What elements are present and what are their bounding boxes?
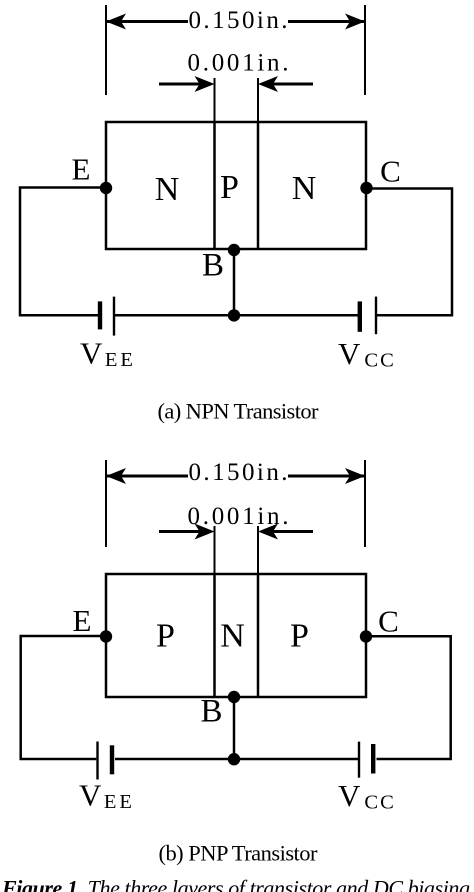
svg-text:B: B bbox=[200, 694, 222, 730]
battery V_EE (NPN) thick plate bbox=[98, 301, 102, 329]
inner dimension arrow left (points right at base layer) bbox=[159, 76, 215, 92]
label C (PNP) bbox=[378, 604, 399, 639]
dimension line 0.150in left segment with arrowhead bbox=[106, 14, 188, 30]
node E dot bbox=[100, 182, 112, 194]
extension line right of 0.150in dimension (PNP) bbox=[364, 460, 366, 547]
region label P (collector) bbox=[290, 618, 309, 655]
region label N (base) bbox=[220, 618, 245, 655]
caption (a) NPN Transistor bbox=[158, 399, 320, 424]
label E (PNP) bbox=[73, 603, 92, 638]
svg-text:P: P bbox=[290, 618, 309, 655]
svg-text:(b) PNP Transistor: (b) PNP Transistor bbox=[159, 841, 319, 866]
battery V_CC (PNP) thin plate bbox=[358, 742, 360, 778]
svg-text:C: C bbox=[378, 604, 399, 639]
label E bbox=[72, 152, 91, 187]
label V_EE bbox=[80, 336, 136, 372]
dimension line 0.150in left segment with arrowhead (PNP) bbox=[106, 468, 188, 484]
svg-text:Figure 1. The three layers of: Figure 1. The three layers of transistor… bbox=[1, 876, 470, 892]
region label P (base) bbox=[220, 169, 239, 206]
svg-text:0.001in.: 0.001in. bbox=[188, 50, 289, 77]
label C bbox=[380, 154, 401, 189]
base wire (PNP) bbox=[233, 697, 236, 759]
transistor body rectangle (PNP) bbox=[106, 574, 366, 697]
region label P (emitter) bbox=[156, 618, 175, 655]
label V_CC (PNP) bbox=[338, 778, 396, 814]
base-width extension line right bbox=[257, 78, 259, 122]
dimension line 0.150in right segment with arrowhead (PNP) bbox=[288, 468, 365, 484]
base-width extension line left bbox=[214, 78, 216, 122]
svg-text:P: P bbox=[220, 169, 239, 206]
bottom wire V_EE to base junction bbox=[115, 314, 234, 317]
svg-text:N: N bbox=[220, 618, 245, 655]
bottom wire base junction to V_CC bbox=[234, 314, 358, 317]
dimension line 0.150in right segment with arrowhead bbox=[288, 14, 365, 30]
node C dot (PNP) bbox=[360, 630, 372, 642]
dimension label 0.150in. bbox=[189, 7, 288, 34]
inner dimension arrow right (PNP) bbox=[258, 524, 313, 540]
svg-text:VCC: VCC bbox=[338, 336, 396, 372]
svg-text:VCC: VCC bbox=[338, 778, 396, 814]
svg-text:B: B bbox=[202, 248, 224, 284]
bottom node dot (PNP) bbox=[228, 753, 240, 765]
svg-text:E: E bbox=[72, 152, 91, 187]
region label N (collector) bbox=[292, 170, 317, 207]
node C dot bbox=[360, 182, 372, 194]
label V_EE (PNP) bbox=[79, 778, 135, 814]
battery V_CC (NPN) thin plate bbox=[375, 297, 377, 335]
dimension label 0.150in. (PNP) bbox=[189, 459, 288, 486]
inner dimension arrow left (PNP) bbox=[159, 524, 215, 540]
svg-text:E: E bbox=[73, 603, 92, 638]
emitter wire to V_EE (PNP) bbox=[21, 636, 106, 759]
junction line left (N-P) bbox=[213, 122, 216, 249]
svg-text:(a) NPN Transistor: (a) NPN Transistor bbox=[158, 399, 320, 424]
junction line left (P-N) PNP bbox=[213, 574, 216, 697]
svg-text:N: N bbox=[292, 170, 317, 207]
svg-text:0.150in.: 0.150in. bbox=[189, 459, 288, 486]
inner dimension arrow right (points left at base layer) bbox=[258, 76, 313, 92]
bottom node dot bbox=[228, 309, 240, 321]
battery V_EE (PNP) thick plate bbox=[110, 745, 114, 774]
collector wire from V_CC bbox=[367, 189, 452, 316]
base-width extension line left (PNP) bbox=[214, 526, 216, 574]
base wire bbox=[233, 250, 236, 315]
battery V_EE (NPN) thin plate bbox=[113, 297, 115, 336]
label V_CC bbox=[338, 336, 396, 372]
node B dot bbox=[228, 244, 240, 256]
emitter wire to V_EE bbox=[20, 188, 106, 316]
node B dot (PNP) bbox=[228, 691, 240, 703]
bottom wire V_EE to base junction (PNP) bbox=[115, 758, 234, 761]
region label N (emitter) bbox=[155, 171, 180, 208]
base-width extension line right (PNP) bbox=[257, 526, 259, 574]
svg-text:VEE: VEE bbox=[79, 778, 135, 814]
collector wire from V_CC (PNP) bbox=[366, 636, 451, 759]
extension line left of 0.150in dimension (PNP) bbox=[105, 460, 107, 547]
svg-text:VEE: VEE bbox=[80, 336, 136, 372]
node E dot (PNP) bbox=[100, 630, 112, 642]
battery V_CC (PNP) thick plate bbox=[371, 744, 375, 774]
extension line right of 0.150in dimension bbox=[364, 5, 366, 95]
junction line right (N-P) PNP bbox=[257, 574, 260, 697]
figure caption Figure 1 (clipped at page bottom) bbox=[1, 876, 470, 892]
transistor body rectangle (NPN) bbox=[106, 122, 366, 249]
dimension label 0.001in. (PNP) bbox=[188, 503, 289, 530]
svg-text:P: P bbox=[156, 618, 175, 655]
junction line right (P-N) bbox=[257, 122, 260, 249]
svg-text:N: N bbox=[155, 171, 180, 208]
battery V_EE (PNP) thin plate bbox=[96, 742, 98, 780]
bottom wire base junction to V_CC (PNP) bbox=[234, 758, 358, 761]
battery V_CC (NPN) thick plate bbox=[358, 301, 362, 331]
svg-text:0.150in.: 0.150in. bbox=[189, 7, 288, 34]
extension line left of 0.150in dimension bbox=[105, 5, 107, 95]
label B (PNP) bbox=[200, 694, 222, 730]
caption (b) PNP Transistor bbox=[159, 841, 319, 866]
svg-text:C: C bbox=[380, 154, 401, 189]
label B bbox=[202, 248, 224, 284]
dimension label 0.001in. bbox=[188, 50, 289, 77]
